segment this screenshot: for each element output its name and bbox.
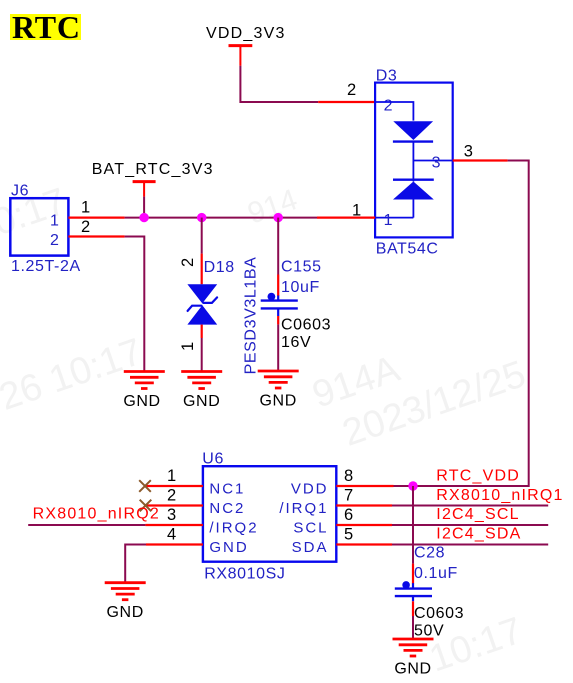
svg-text:5: 5 (344, 526, 353, 544)
title RTC (10, 14, 81, 40)
svg-text:1: 1 (50, 212, 59, 229)
svg-text:/IRQ2: /IRQ2 (209, 520, 258, 537)
svg-text:16V: 16V (281, 334, 311, 351)
svg-text:RX8010_nIRQ1: RX8010_nIRQ1 (436, 487, 563, 504)
svg-text:50V: 50V (414, 623, 444, 640)
svg-text:U6: U6 (202, 450, 224, 467)
svg-text:RX8010_nIRQ2: RX8010_nIRQ2 (33, 506, 160, 523)
svg-text:BAT_RTC_3V3: BAT_RTC_3V3 (92, 161, 214, 178)
wire power to bus (143, 197, 145, 218)
svg-text:0.1uF: 0.1uF (414, 565, 458, 582)
svg-text:RTC: RTC (12, 9, 81, 45)
pin 4 of U6 (146, 543, 203, 545)
svg-text:I2C4_SDA: I2C4_SDA (436, 526, 521, 543)
svg-text:NC2: NC2 (209, 500, 245, 517)
pin 1 of D18 (201, 325, 203, 338)
svg-text:RX8010SJ: RX8010SJ (204, 566, 285, 583)
ground under U6 (105, 583, 146, 600)
ground under D18 (181, 372, 222, 389)
pin 1 of C155 (277, 275, 279, 297)
svg-text:PESD3V3L1BA: PESD3V3L1BA (243, 257, 260, 375)
svg-text:GND: GND (183, 393, 220, 410)
svg-text:2: 2 (347, 81, 356, 99)
wire RTC_VDD to C28 (412, 486, 414, 564)
svg-text:3: 3 (432, 155, 441, 172)
junction bus at C155 (274, 213, 283, 222)
power bar BAT_RTC_3V3 (133, 180, 156, 183)
wire VDD_3V3 to D3 pin2 (240, 66, 318, 102)
svg-text:1: 1 (179, 342, 197, 351)
pin 8 of U6 (336, 485, 393, 487)
pin 1 of D3 wire (317, 217, 375, 219)
svg-text:2: 2 (50, 232, 59, 249)
svg-text:6: 6 (344, 506, 353, 524)
svg-text:C0603: C0603 (281, 316, 331, 333)
connector J6 box (10, 198, 68, 255)
capacitor C155 (277, 296, 279, 317)
diode D3 box (375, 83, 453, 238)
ground under C155 (258, 371, 299, 388)
wire bus to C155 (277, 218, 279, 275)
wire RX8010_nIRQ2 (28, 524, 145, 526)
wire bus to D18 (201, 218, 203, 254)
svg-text:/IRQ1: /IRQ1 (279, 500, 328, 517)
wire bus BAT_RTC_3V3 (125, 217, 317, 219)
ground under C28 (393, 639, 434, 656)
svg-text:2: 2 (167, 487, 176, 505)
junction bus at D18 (197, 213, 206, 222)
pin 1 of J6 (68, 217, 124, 219)
svg-text:D3: D3 (376, 68, 398, 85)
svg-text:1.25T-2A: 1.25T-2A (11, 258, 81, 275)
svg-text:RTC_VDD: RTC_VDD (436, 468, 520, 485)
svg-text:1: 1 (81, 199, 90, 217)
no connect X pin2 (140, 500, 152, 512)
svg-text:GND: GND (209, 539, 248, 556)
svg-text:3: 3 (464, 143, 473, 161)
svg-text:2: 2 (81, 218, 90, 236)
pin 2 of J6 (68, 235, 124, 237)
svg-text:VDD_3V3: VDD_3V3 (206, 25, 286, 42)
wire I2C4_SCL (392, 524, 548, 526)
svg-text:8: 8 (344, 467, 353, 485)
svg-text:BAT54C: BAT54C (376, 241, 439, 258)
pin 2 of C155 (277, 316, 279, 324)
pin 5 of U6 (336, 543, 392, 545)
svg-text:GND: GND (123, 393, 160, 410)
svg-text:GND: GND (260, 393, 297, 410)
pin 3 of U6 (145, 524, 203, 526)
wire RX8010_nIRQ1 (392, 505, 548, 507)
svg-text:C0603: C0603 (414, 605, 464, 622)
svg-text:2: 2 (384, 98, 393, 115)
no connect X pin1 (139, 480, 151, 492)
pin 1 of U6 (145, 485, 203, 487)
svg-text:GND: GND (394, 661, 431, 678)
svg-text:I2C4_SCL: I2C4_SCL (436, 506, 519, 523)
svg-text:1: 1 (167, 467, 176, 485)
svg-text:C28: C28 (414, 545, 445, 562)
svg-text:SDA: SDA (292, 539, 329, 556)
svg-text:VDD: VDD (291, 481, 329, 498)
wire J6 pin2 to GND (125, 237, 145, 372)
D3 top diode (393, 121, 433, 140)
svg-text:C155: C155 (281, 259, 322, 276)
svg-text:GND: GND (107, 604, 144, 621)
IC U6 box (203, 466, 336, 562)
wire D18 to GND (201, 338, 203, 372)
pin 2 of C28 (412, 601, 414, 616)
pin 2 of U6 (146, 504, 203, 506)
power bar VDD_3V3 (229, 44, 253, 47)
capacitor C28 (412, 583, 414, 601)
svg-text:2: 2 (179, 258, 197, 267)
watermark (0, 180, 531, 680)
ground under J6 pin2 (124, 372, 165, 389)
svg-text:SCL: SCL (293, 520, 328, 537)
D3 pin 1 internal (375, 217, 413, 219)
junction RTC_VDD (408, 481, 417, 490)
svg-text:4: 4 (167, 526, 176, 544)
pin 2 of D3 (318, 101, 375, 103)
wire C28 to GND (412, 616, 414, 639)
junction bus at power (139, 213, 148, 222)
svg-text:3: 3 (167, 506, 176, 524)
wire I2C4_SDA (392, 544, 548, 546)
pin 3 of D3 wire (453, 159, 508, 161)
D3 pin 3 internal (413, 160, 452, 162)
svg-text:7: 7 (344, 487, 353, 505)
wire RTC_VDD vertical right (394, 161, 529, 487)
svg-text:NC1: NC1 (209, 481, 245, 498)
svg-text:1: 1 (352, 202, 361, 220)
svg-text:10uF: 10uF (281, 279, 320, 296)
pin 1 of C28 (412, 564, 414, 584)
svg-text:1: 1 (384, 212, 393, 229)
wire U6 GND (125, 545, 146, 583)
svg-text:D18: D18 (204, 259, 235, 276)
wire C155 to GND (277, 324, 279, 371)
TVS diode D18 (187, 284, 217, 303)
D3 bottom diode (393, 178, 434, 180)
pin 6 of U6 (336, 524, 392, 526)
svg-text:J6: J6 (11, 183, 29, 200)
pin 2 of D18 (201, 254, 203, 285)
svg-text:914: 914 (244, 183, 302, 231)
pin 7 of U6 (336, 504, 392, 506)
